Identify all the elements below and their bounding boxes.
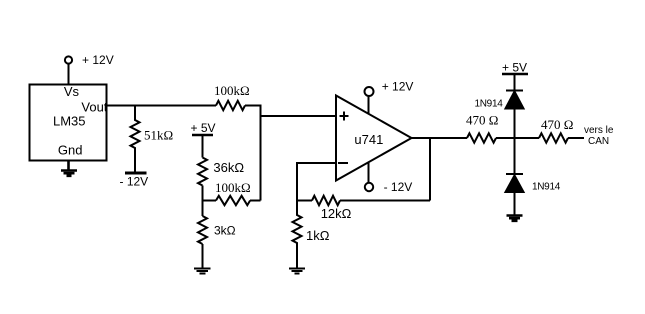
feedback wire vertical (429, 138, 431, 201)
svg-text:+ 5V: + 5V (191, 121, 216, 135)
resistor R3 36k (198, 158, 207, 186)
resistor R5 3k (198, 216, 207, 244)
svg-text:Gnd: Gnd (58, 143, 83, 158)
diode D2 1N914 body (506, 176, 524, 193)
wire +5V to D1 (514, 74, 516, 91)
wire D1 to node D (514, 109, 516, 139)
wire R3 to node B (202, 186, 204, 217)
wire node C to R6 (297, 200, 312, 202)
ground (D2) (507, 216, 523, 221)
wire R9 to CAN output (568, 137, 584, 139)
svg-text:1N914: 1N914 (475, 98, 504, 109)
svg-text:51kΩ: 51kΩ (144, 128, 173, 143)
ground (R7) (289, 269, 305, 274)
ground (LM35 Gnd) (61, 160, 77, 176)
svg-text:- 12V: - 12V (384, 180, 413, 194)
op-amp inverting input marking (338, 162, 348, 164)
svg-text:CAN: CAN (588, 136, 609, 147)
resistor R2 51k with leads (131, 105, 140, 172)
power terminal +5V (clamp) (502, 73, 528, 76)
IC U1 LM35 package outline (30, 85, 107, 161)
wire R8 to node D (496, 137, 539, 139)
resistor R7 1k with lead (293, 201, 302, 268)
power terminal +12V (LM35 Vs) (65, 56, 72, 84)
svg-text:- 12V: - 12V (120, 175, 149, 189)
svg-text:1kΩ: 1kΩ (306, 228, 330, 243)
power terminal -12V (below R2) (125, 172, 147, 175)
op-amp U2 triangle (336, 96, 412, 181)
wire node B to R4 (203, 200, 217, 202)
svg-text:u741: u741 (354, 132, 383, 147)
diode D1 1N914 cathode bar (506, 90, 523, 92)
wire node D to D2 (514, 138, 516, 174)
svg-text:3kΩ: 3kΩ (214, 224, 236, 238)
wire +5V bar to R3 (202, 135, 204, 158)
ground (divider) (194, 269, 211, 274)
power terminal +12V (op-amp) (365, 87, 374, 114)
resistor R6 12k (312, 196, 340, 205)
wire R1 to node X (245, 105, 261, 107)
wire inverting input (297, 162, 336, 164)
svg-text:36kΩ: 36kΩ (213, 160, 244, 175)
power terminal +5V (divider) (192, 134, 213, 137)
wire op-amp output (412, 137, 468, 139)
resistor R4 100k horizontal (216, 196, 250, 205)
power terminal -12V (op-amp) (365, 162, 373, 191)
wire R5 to ground (202, 244, 204, 268)
diode D1 1N914 body (506, 92, 524, 109)
svg-text:+ 12V: + 12V (382, 80, 414, 94)
svg-text:Vs: Vs (64, 84, 80, 99)
wire R4 to node X (250, 200, 261, 202)
op-amp non-inverting input marking (340, 112, 349, 121)
svg-text:100kΩ: 100kΩ (215, 180, 251, 195)
wire node X to op-amp non-inverting input (261, 115, 337, 117)
wire Vout to R1 (107, 105, 216, 107)
svg-text:470 Ω: 470 Ω (541, 117, 573, 132)
resistor R8 470 (467, 133, 496, 142)
svg-text:+ 12V: + 12V (82, 53, 114, 67)
resistor R9 470 (539, 133, 568, 142)
diode D2 1N914 cathode bar (506, 173, 523, 175)
svg-text:LM35: LM35 (53, 114, 86, 129)
svg-text:Vout: Vout (81, 100, 107, 115)
svg-text:100kΩ: 100kΩ (214, 83, 250, 98)
resistor R1 100k (216, 101, 245, 110)
svg-text:1N914: 1N914 (532, 182, 561, 193)
svg-text:+ 5V: + 5V (502, 61, 527, 75)
svg-text:vers le: vers le (584, 125, 614, 136)
svg-text:12kΩ: 12kΩ (321, 206, 352, 221)
wire R6 to feedback corner (340, 200, 430, 202)
wire D2 to ground (514, 192, 516, 215)
wire node C vertical (296, 162, 298, 201)
svg-text:470 Ω: 470 Ω (466, 112, 498, 127)
wire node X vertical (260, 105, 262, 201)
